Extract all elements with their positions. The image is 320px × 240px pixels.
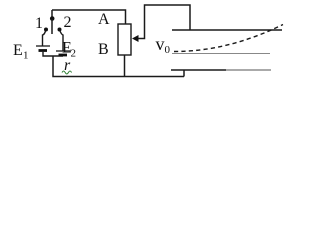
svg-text:B: B: [98, 41, 109, 58]
deflection plate top: [172, 29, 282, 31]
wire: battery common drop to bottom rail: [53, 56, 184, 77]
svg-text:1: 1: [23, 50, 29, 62]
spellcheck squiggle under r: [62, 71, 72, 74]
switch contact 2 dot: [58, 28, 62, 32]
switch S blade (open, hanging vertical): [51, 19, 53, 34]
svg-text:0: 0: [165, 44, 171, 56]
trajectory (dashed parabola): [174, 25, 283, 52]
deflection plate bottom: [171, 69, 226, 71]
battery E1 long plate: [36, 45, 50, 47]
wire: wiper to top plate feed: [138, 5, 190, 39]
battery E1 short thick plate: [39, 49, 48, 52]
wire: contact 1 down to battery E1: [43, 31, 46, 46]
wire: contact 2 down to battery E2: [60, 31, 63, 51]
switch contact 1 dot: [44, 28, 48, 32]
potentiometer wiper arrow: [132, 35, 139, 42]
potentiometer R body: [118, 24, 131, 55]
axis line (undeflected path): [172, 53, 270, 55]
deflection plate bottom right (fainter): [226, 69, 271, 71]
svg-text:2: 2: [64, 14, 72, 31]
svg-text:v: v: [156, 34, 165, 54]
svg-text:E: E: [13, 42, 23, 59]
svg-text:A: A: [98, 11, 110, 28]
battery E2 long plate: [56, 50, 70, 52]
wire: E1 bottom lead: [43, 52, 63, 56]
wire: switch riser from top rail down to pole: [51, 10, 53, 19]
wire: top rail from switch pole to potentiometer top: [52, 10, 126, 24]
wire: potentiometer bottom lead to bottom rail: [124, 55, 126, 77]
svg-text:2: 2: [71, 48, 77, 60]
wire: bottom plate feed from bottom rail: [183, 70, 185, 77]
switch S pole junction dot: [50, 16, 55, 21]
svg-text:1: 1: [35, 15, 43, 32]
battery E2 short thick plate: [59, 54, 68, 57]
